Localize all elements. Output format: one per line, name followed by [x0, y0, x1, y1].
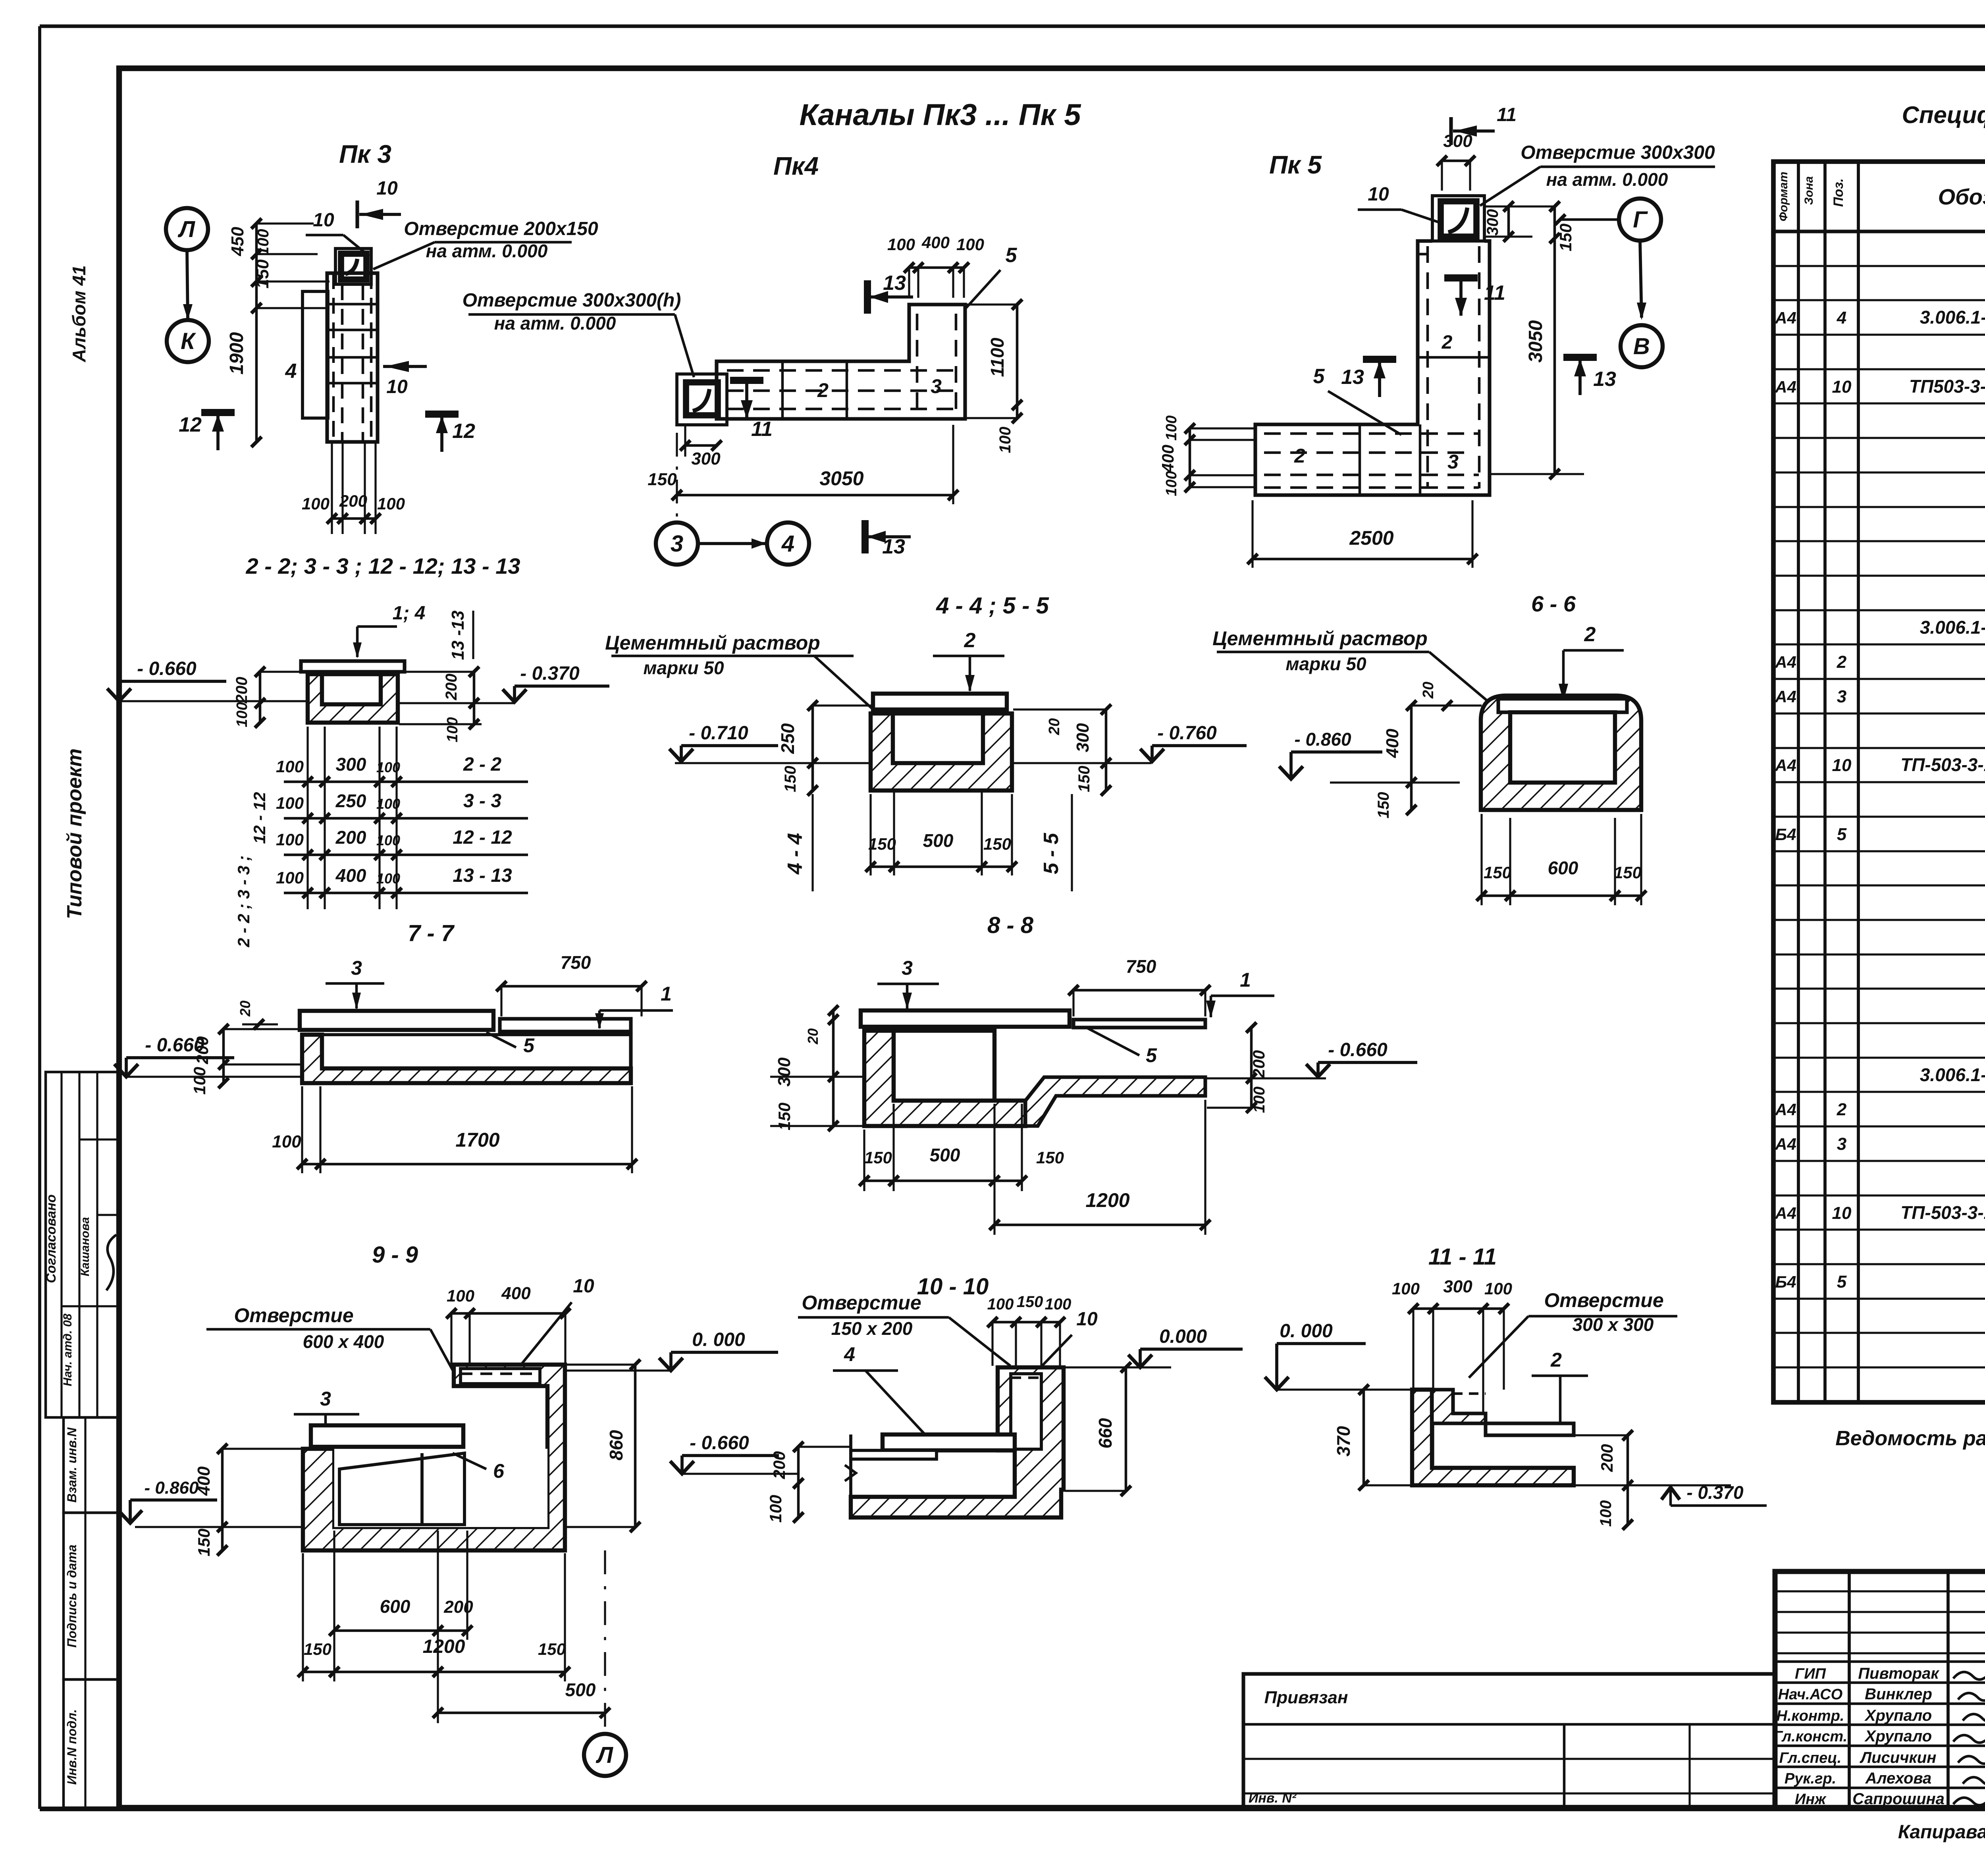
svg-text:100: 100: [272, 1132, 301, 1151]
svg-text:150: 150: [1375, 792, 1392, 819]
svg-text:4: 4: [844, 1343, 855, 1365]
left margin: Согласовано block: [46, 1072, 119, 1417]
9-9 well opening: [461, 1369, 540, 1384]
9-9 axis circle Л: [584, 1734, 626, 1776]
svg-text:100: 100: [1251, 1087, 1268, 1113]
svg-text:300 х 300: 300 х 300: [1573, 1314, 1654, 1335]
svg-text:100: 100: [1484, 1279, 1512, 1298]
svg-text:11: 11: [751, 418, 773, 441]
svg-text:5: 5: [1313, 365, 1325, 388]
svg-text:150: 150: [304, 1640, 331, 1658]
svg-text:2500: 2500: [1349, 527, 1393, 549]
svg-text:10: 10: [573, 1276, 594, 1297]
svg-text:300: 300: [336, 754, 366, 775]
Пк5 cut mark 13 right: [1563, 354, 1597, 361]
svg-text:А4: А4: [1775, 1204, 1796, 1222]
svg-text:Гл.спец.: Гл.спец.: [1779, 1750, 1842, 1766]
svg-text:А4: А4: [1775, 1100, 1796, 1119]
svg-text:2: 2: [1294, 445, 1305, 467]
Пк3 left dims: [255, 224, 258, 442]
svg-text:150: 150: [864, 1148, 892, 1167]
svg-text:3: 3: [671, 531, 683, 557]
svg-text:7 - 7: 7 - 7: [408, 920, 455, 946]
Пк3 cut mark 10 right: [383, 365, 427, 368]
Пк4 cut marks 13: [864, 280, 871, 314]
svg-text:Кашанова: Кашанова: [79, 1217, 92, 1276]
svg-text:6 - 6: 6 - 6: [1531, 591, 1576, 616]
svg-text:250: 250: [335, 791, 366, 811]
svg-text:1900: 1900: [226, 332, 247, 374]
Пк5 cut mark 13 left: [1363, 356, 1396, 363]
svg-text:3 - 3: 3 - 3: [463, 791, 501, 812]
svg-text:150: 150: [648, 470, 677, 489]
svg-text:400: 400: [194, 1466, 214, 1496]
Пк3 guide lines below: [331, 442, 333, 534]
svg-text:Инв.N подл.: Инв.N подл.: [65, 1709, 79, 1785]
svg-text:Б4: Б4: [1775, 1273, 1796, 1291]
8-8 dim 750: [1073, 989, 1205, 992]
svg-text:20: 20: [805, 1028, 821, 1045]
2-2 left dims: [259, 672, 262, 723]
svg-text:1200: 1200: [423, 1636, 465, 1657]
svg-text:на атм. 0.000: на атм. 0.000: [1546, 169, 1668, 190]
svg-text:400: 400: [1383, 729, 1402, 758]
svg-text:Капиравал Каннова: Капиравал Каннова: [1898, 1822, 1985, 1843]
svg-text:200: 200: [443, 1597, 473, 1617]
svg-text:100: 100: [887, 235, 915, 254]
Пк4 dim 1100: [1016, 305, 1019, 418]
svg-text:100: 100: [276, 830, 304, 849]
svg-text:100: 100: [376, 870, 400, 887]
svg-text:Подпись и дата: Подпись и дата: [65, 1544, 79, 1647]
svg-text:марки 50: марки 50: [1285, 654, 1366, 674]
svg-text:2: 2: [1550, 1349, 1562, 1371]
title block: [1775, 1571, 1985, 1808]
svg-text:10: 10: [1832, 756, 1852, 775]
svg-text:Инж: Инж: [1795, 1791, 1827, 1808]
svg-text:Нач.АСО: Нач.АСО: [1778, 1686, 1842, 1703]
svg-text:100: 100: [302, 494, 330, 513]
svg-text:Л: Л: [595, 1742, 613, 1768]
svg-text:400: 400: [921, 233, 950, 252]
svg-text:10: 10: [1832, 1203, 1852, 1223]
svg-text:13: 13: [882, 535, 905, 558]
4-4 plate 2: [873, 694, 1007, 710]
svg-text:100: 100: [190, 1067, 209, 1095]
svg-text:2: 2: [1584, 623, 1596, 646]
svg-text:10: 10: [386, 376, 408, 397]
svg-text:2: 2: [1837, 652, 1847, 672]
7-7 body: [302, 1035, 631, 1083]
svg-text:300: 300: [1443, 1277, 1472, 1296]
svg-text:1200: 1200: [1085, 1189, 1129, 1211]
9-9 right dim 860: [634, 1365, 637, 1527]
8-8 left dims: [832, 1010, 835, 1126]
svg-text:А4: А4: [1775, 687, 1796, 706]
svg-text:Спецификация каналов Пк3, Пк4: Спецификация каналов Пк3, Пк4, Пк5: [1902, 102, 1985, 128]
2-2 dim table rows: [284, 781, 528, 783]
svg-text:Нач. атд. 08: Нач. атд. 08: [61, 1313, 74, 1386]
svg-text:1: 1: [661, 983, 672, 1005]
Пк5 dim 3050 vert: [1553, 206, 1556, 474]
svg-text:Согласовано: Согласовано: [44, 1194, 59, 1283]
6-6 bottom dims: [1482, 895, 1641, 897]
svg-text:100: 100: [1597, 1500, 1615, 1527]
svg-text:100: 100: [254, 229, 272, 256]
7-7 plates: [300, 1011, 493, 1030]
svg-text:100: 100: [377, 494, 405, 513]
svg-text:200: 200: [1598, 1444, 1616, 1472]
svg-text:100: 100: [996, 427, 1014, 453]
svg-text:10: 10: [376, 178, 398, 199]
svg-text:100: 100: [276, 868, 304, 887]
svg-text:13 -13: 13 -13: [448, 611, 468, 660]
svg-text:Пк 5: Пк 5: [1269, 150, 1322, 179]
svg-text:12 - 12: 12 - 12: [250, 792, 269, 844]
4-4 body: [871, 713, 1012, 791]
svg-text:9 - 9: 9 - 9: [372, 1242, 418, 1268]
svg-text:2: 2: [964, 629, 976, 652]
svg-text:Сапрошина: Сапрошина: [1852, 1790, 1945, 1808]
svg-text:3050: 3050: [819, 467, 863, 490]
Пк3 cut mark 10 arrow: [355, 201, 359, 228]
svg-text:Винклер: Винклер: [1865, 1685, 1932, 1703]
svg-text:20: 20: [1420, 682, 1437, 699]
svg-text:13 - 13: 13 - 13: [453, 865, 512, 886]
svg-text:Гл.конст.: Гл.конст.: [1773, 1728, 1847, 1745]
svg-text:12: 12: [179, 413, 202, 436]
svg-text:600 х 400: 600 х 400: [303, 1331, 384, 1352]
svg-text:А4: А4: [1775, 1135, 1796, 1153]
svg-text:13: 13: [1341, 366, 1364, 389]
svg-text:1: 1: [1240, 969, 1251, 991]
svg-text:1; 4: 1; 4: [393, 603, 426, 624]
svg-text:ГИП: ГИП: [1795, 1666, 1826, 1682]
svg-text:Рук.гр.: Рук.гр.: [1785, 1770, 1836, 1787]
svg-text:Отверстие 300х300: Отверстие 300х300: [1521, 142, 1715, 163]
svg-text:5 - 5: 5 - 5: [1040, 833, 1063, 874]
svg-text:ТП-503-3-11.86 - КЖИ.310: ТП-503-3-11.86 - КЖИ.310: [1900, 754, 1985, 775]
svg-text:Альбом 41: Альбом 41: [69, 265, 89, 362]
svg-text:Л: Л: [177, 216, 195, 242]
svg-text:250: 250: [777, 723, 798, 754]
svg-text:150: 150: [1556, 224, 1575, 251]
svg-text:Ведомость расхода стали: Ведомость расхода стали на Пк 3 ... Пк 5…: [1835, 1427, 1985, 1450]
7-7 bottom dims: [302, 1163, 632, 1166]
svg-text:200: 200: [233, 677, 251, 704]
svg-text:100: 100: [956, 235, 984, 254]
Пк5 axis circle Г: [1619, 199, 1661, 241]
svg-text:400: 400: [335, 865, 366, 886]
svg-text:ТП503-3-11.86 КЖИ.310: ТП503-3-11.86 КЖИ.310: [1909, 376, 1985, 397]
10-10 plate 4: [883, 1434, 1015, 1450]
svg-text:4: 4: [1837, 308, 1846, 328]
svg-text:8 - 8: 8 - 8: [987, 912, 1034, 938]
svg-text:100: 100: [276, 757, 304, 776]
svg-text:300: 300: [1073, 723, 1093, 752]
4-4 right dims: [1105, 710, 1108, 791]
svg-text:5: 5: [1837, 825, 1847, 844]
svg-text:3.006.1- 2/82 вып 1-2: 3.006.1- 2/82 вып 1-2: [1920, 307, 1985, 328]
svg-text:200: 200: [339, 492, 367, 510]
svg-text:- 0.370: - 0.370: [1686, 1482, 1744, 1503]
svg-text:500: 500: [930, 1145, 960, 1165]
svg-text:10: 10: [1368, 184, 1389, 205]
svg-text:А4: А4: [1775, 756, 1796, 775]
page outer border: [40, 24, 1985, 28]
svg-text:660: 660: [1095, 1418, 1116, 1448]
svg-text:4: 4: [781, 531, 794, 557]
Пк4 cut mark 11: [730, 377, 763, 384]
Пк5 cut mark 11 top: [1449, 117, 1453, 145]
svg-text:3: 3: [902, 957, 913, 979]
svg-text:Цементный раствор: Цементный раствор: [605, 632, 820, 654]
svg-text:3.006.1- 2/82 вып 1-2: 3.006.1- 2/82 вып 1-2: [1920, 1064, 1985, 1085]
svg-text:А4: А4: [1775, 653, 1796, 671]
7-7 left dims: [222, 1029, 225, 1083]
7-7 dim 750: [501, 985, 642, 988]
svg-text:Н.контр.: Н.контр.: [1777, 1708, 1844, 1724]
svg-text:100: 100: [447, 1286, 474, 1305]
svg-text:А4: А4: [1775, 378, 1796, 396]
Пк3 cut marks 12: [201, 409, 235, 416]
10-10 left dims: [797, 1447, 800, 1517]
svg-text:3: 3: [1837, 687, 1846, 706]
svg-text:400: 400: [501, 1284, 531, 1303]
svg-text:200: 200: [443, 674, 460, 701]
svg-text:Поз.: Поз.: [1831, 178, 1846, 207]
2-2 dim table extension lines: [306, 727, 308, 909]
8-8 right dims: [1250, 1028, 1253, 1108]
9-9 left dims: [221, 1449, 224, 1550]
svg-text:150: 150: [1614, 863, 1642, 882]
svg-text:Отверстие 200х150: Отверстие 200х150: [404, 218, 598, 239]
svg-text:Отверстие 300х300(h): Отверстие 300х300(h): [463, 290, 681, 311]
svg-text:11: 11: [1497, 104, 1517, 125]
svg-text:5: 5: [1837, 1272, 1847, 1292]
svg-text:500: 500: [565, 1679, 596, 1700]
4-4 left dims: [811, 706, 814, 791]
Пк5 left dims 100 400 100: [1189, 428, 1191, 487]
svg-text:500: 500: [923, 830, 954, 851]
9-9 inner mass: [339, 1453, 464, 1525]
svg-text:3050: 3050: [1525, 320, 1546, 362]
6-6 body: [1481, 696, 1641, 810]
svg-text:13: 13: [883, 272, 906, 295]
svg-text:3.006.1- 2/82 вып 1-2: 3.006.1- 2/82 вып 1-2: [1920, 617, 1985, 638]
left margin: Подпись и дата: [64, 1513, 119, 1679]
svg-text:10: 10: [1076, 1309, 1098, 1330]
Пк4 axis line: [676, 433, 678, 521]
table rows: [1773, 265, 1985, 267]
Пк5 cut mark 11 mid: [1444, 274, 1478, 281]
svg-text:150 х 200: 150 х 200: [831, 1318, 913, 1339]
svg-text:20: 20: [1046, 718, 1063, 735]
svg-text:12 - 12: 12 - 12: [453, 827, 512, 848]
svg-text:В: В: [1633, 334, 1650, 359]
svg-text:Г: Г: [1633, 207, 1648, 233]
svg-text:2 - 2: 2 - 2: [463, 754, 501, 775]
svg-text:150: 150: [1484, 863, 1511, 882]
2-2 right dims: [473, 672, 476, 724]
svg-text:Зона: Зона: [1802, 176, 1815, 205]
svg-text:150: 150: [782, 766, 799, 792]
11-11 plate 2: [1486, 1423, 1574, 1435]
Пк4 dims 100 400 100: [909, 266, 964, 269]
svg-text:4 - 4 ; 5 - 5: 4 - 4 ; 5 - 5: [936, 593, 1049, 619]
svg-text:150: 150: [868, 835, 896, 853]
svg-text:3: 3: [1447, 451, 1459, 473]
Пк4 well: [677, 374, 727, 425]
svg-text:860: 860: [606, 1430, 626, 1460]
svg-text:2 - 2; 3 - 3 ; 12 - 12; 13: 2 - 2; 3 - 3 ; 12 - 12; 13 - 13: [246, 553, 520, 578]
svg-text:на атм. 0.000: на атм. 0.000: [426, 241, 548, 261]
svg-text:4: 4: [285, 360, 297, 383]
svg-text:100: 100: [276, 794, 304, 812]
svg-text:300: 300: [1484, 209, 1501, 236]
9-9 body: [303, 1365, 565, 1550]
svg-text:150: 150: [983, 835, 1011, 853]
Пк3 axis circle К: [167, 320, 209, 362]
svg-text:600: 600: [380, 1596, 410, 1617]
svg-text:0.000: 0.000: [1159, 1326, 1207, 1347]
svg-text:Инв. N²: Инв. N²: [1249, 1791, 1297, 1806]
left margin: Взам. инв. N: [64, 1417, 119, 1513]
svg-text:100: 100: [1163, 471, 1180, 496]
svg-text:Обозначение: Обозначение: [1938, 184, 1985, 209]
svg-text:150: 150: [538, 1640, 566, 1658]
svg-text:1700: 1700: [455, 1129, 499, 1151]
svg-text:100: 100: [234, 702, 251, 727]
Пк3 axis circle Л: [166, 208, 208, 250]
Пк4 dim 3050: [677, 494, 953, 497]
11-11 right dims: [1627, 1435, 1629, 1485]
2-2 top plate: [301, 661, 405, 672]
10-10 body: [851, 1367, 1064, 1517]
svg-text:150: 150: [1017, 1293, 1043, 1311]
svg-text:2: 2: [817, 379, 829, 401]
2-2 body: [308, 674, 398, 723]
8-8 body: [864, 1031, 1025, 1126]
8-8 plates: [861, 1010, 1070, 1027]
svg-text:20: 20: [237, 1001, 253, 1017]
svg-text:400: 400: [1158, 445, 1177, 473]
svg-text:Пивторак: Пивторак: [1858, 1665, 1939, 1682]
svg-text:100: 100: [444, 717, 461, 742]
svg-text:100: 100: [1392, 1279, 1420, 1298]
svg-text:Алехова: Алехова: [1865, 1770, 1932, 1787]
svg-text:300: 300: [775, 1057, 794, 1087]
svg-text:- 0.660: - 0.660: [137, 658, 197, 679]
9-9 bottom dims: [334, 1629, 467, 1632]
svg-text:10: 10: [313, 210, 334, 231]
Пк5 body: [1255, 241, 1490, 495]
Пк4 axis circle 4: [767, 523, 809, 565]
10-10 break line: [849, 1434, 852, 1517]
svg-text:200: 200: [1249, 1050, 1268, 1078]
svg-text:Формат: Формат: [1777, 172, 1790, 221]
svg-text:2 - 2 ; 3 - 3 ;: 2 - 2 ; 3 - 3 ;: [234, 855, 253, 947]
svg-text:100: 100: [1045, 1296, 1072, 1313]
svg-text:750: 750: [1126, 956, 1156, 977]
svg-text:К: К: [181, 328, 196, 354]
svg-text:12: 12: [452, 420, 475, 443]
svg-text:Типовой проект: Типовой проект: [63, 748, 86, 919]
Пк4 axis circle 3: [656, 523, 698, 565]
svg-text:- 0.760: - 0.760: [1157, 723, 1217, 744]
svg-text:13: 13: [1593, 368, 1616, 391]
svg-text:450: 450: [228, 227, 247, 256]
svg-text:Хрупало: Хрупало: [1864, 1728, 1932, 1745]
svg-text:Лисичкин: Лисичкин: [1860, 1749, 1937, 1766]
svg-text:Цементный раствор: Цементный раствор: [1212, 627, 1428, 650]
svg-text:200: 200: [335, 827, 366, 848]
svg-text:Каналы Пк3 ... Пк 5: Каналы Пк3 ... Пк 5: [800, 98, 1082, 132]
svg-text:600: 600: [1548, 858, 1578, 878]
svg-text:1100: 1100: [987, 337, 1008, 377]
svg-text:5: 5: [523, 1034, 535, 1057]
svg-text:ТП-503-3-11.86 - КЖИ.310: ТП-503-3-11.86 - КЖИ.310: [1900, 1202, 1985, 1223]
Пк3 plan body: [327, 273, 378, 442]
svg-text:100: 100: [376, 832, 400, 848]
svg-text:150: 150: [195, 1529, 213, 1556]
svg-text:- 0.710: - 0.710: [689, 723, 748, 744]
svg-text:0. 000: 0. 000: [692, 1329, 745, 1350]
svg-text:5: 5: [1146, 1044, 1157, 1066]
specification table: [1773, 162, 1985, 1402]
svg-text:3: 3: [320, 1388, 331, 1410]
svg-text:марки 50: марки 50: [643, 657, 724, 678]
svg-text:Отверстие: Отверстие: [802, 1292, 921, 1314]
Пк3 axis link: [187, 250, 188, 320]
svg-text:Привязан: Привязан: [1264, 1688, 1348, 1707]
svg-text:750: 750: [561, 952, 591, 973]
svg-text:150: 150: [253, 259, 272, 289]
svg-text:6: 6: [493, 1460, 505, 1482]
svg-text:2: 2: [1837, 1100, 1847, 1119]
svg-text:100: 100: [766, 1495, 785, 1523]
left margin: Инв. N подл.: [64, 1679, 119, 1808]
svg-text:11: 11: [1484, 281, 1505, 305]
svg-text:Отверстие: Отверстие: [1544, 1289, 1663, 1311]
11-11 dim 370: [1363, 1390, 1365, 1485]
Пк5 top dim 300: [1442, 160, 1470, 162]
Пк5 well: [1432, 196, 1484, 241]
svg-text:100: 100: [987, 1296, 1014, 1313]
svg-text:200: 200: [193, 1036, 212, 1064]
svg-text:Отверстие: Отверстие: [234, 1304, 353, 1327]
svg-text:11 - 11: 11 - 11: [1428, 1244, 1497, 1270]
svg-text:100: 100: [1163, 415, 1180, 440]
svg-text:5: 5: [1006, 244, 1018, 267]
svg-text:150: 150: [1075, 766, 1093, 792]
Пк5 dim 300 vert: [1484, 205, 1556, 207]
svg-text:10 - 10: 10 - 10: [917, 1274, 989, 1300]
10-10 dim 660: [1125, 1367, 1127, 1491]
svg-text:Пк4: Пк4: [773, 152, 819, 180]
svg-text:3: 3: [1837, 1134, 1846, 1154]
Пк3 bottom dims 100 200 100: [332, 517, 376, 520]
svg-text:на атм. 0.000: на атм. 0.000: [494, 313, 616, 334]
svg-text:- 0.860: - 0.860: [1294, 729, 1351, 750]
9-9 plate 3: [311, 1425, 463, 1447]
svg-text:10: 10: [1832, 377, 1852, 397]
svg-text:3: 3: [931, 375, 942, 397]
svg-text:300: 300: [691, 449, 721, 469]
svg-text:- 0.660: - 0.660: [690, 1433, 749, 1454]
Пк3 well: [335, 249, 371, 284]
Привязан stamp: [1243, 1674, 1775, 1808]
